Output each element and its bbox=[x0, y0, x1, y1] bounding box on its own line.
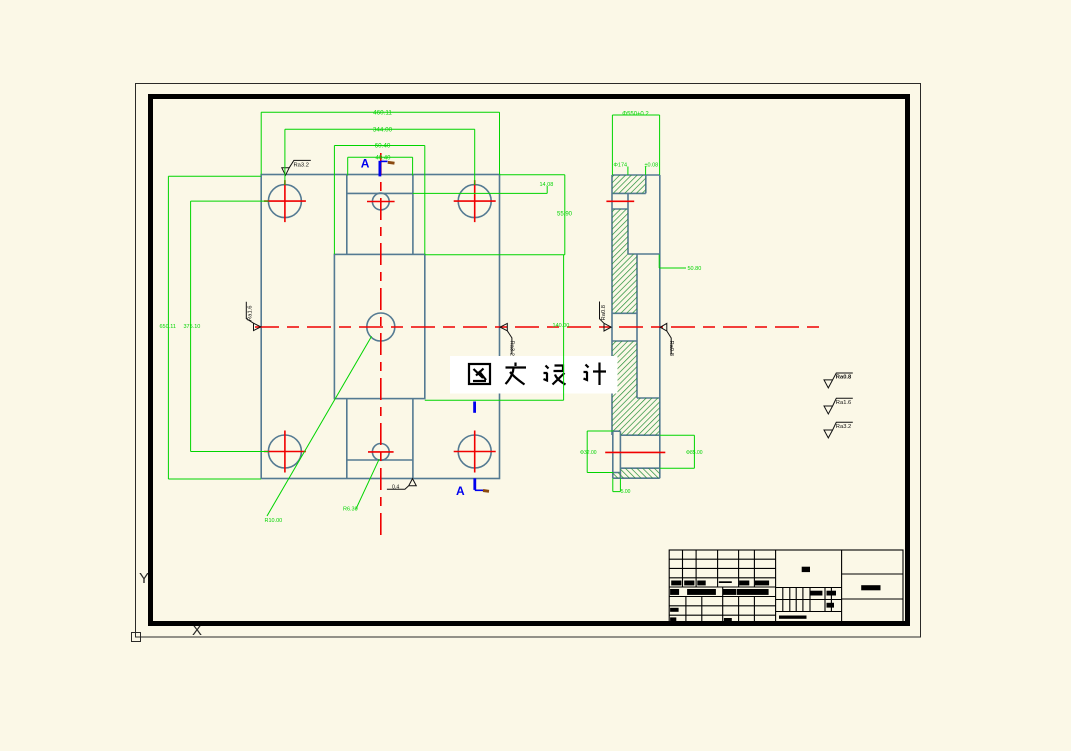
svg-text:Φ32.00: Φ32.00 bbox=[580, 450, 597, 456]
svg-text:375.10: 375.10 bbox=[184, 324, 201, 330]
svg-text:Ra1.6: Ra1.6 bbox=[248, 306, 254, 321]
svg-text:Ra1.6: Ra1.6 bbox=[836, 400, 851, 406]
svg-text:40.40: 40.40 bbox=[375, 156, 391, 162]
svg-text:Ra3.2: Ra3.2 bbox=[509, 341, 515, 356]
svg-text:R6.30: R6.30 bbox=[343, 507, 358, 513]
svg-text:650.11: 650.11 bbox=[160, 324, 176, 330]
svg-text:344.00: 344.00 bbox=[373, 127, 393, 134]
svg-text:5.00: 5.00 bbox=[621, 489, 631, 495]
svg-text:Φ550±0.2: Φ550±0.2 bbox=[622, 112, 649, 118]
svg-text:Ra0.8: Ra0.8 bbox=[668, 341, 674, 356]
svg-text:±0.08: ±0.08 bbox=[645, 163, 659, 169]
svg-text:Φ174: Φ174 bbox=[614, 163, 628, 169]
svg-text:60.40: 60.40 bbox=[375, 143, 391, 150]
svg-text:0.4: 0.4 bbox=[392, 484, 399, 490]
svg-text:A: A bbox=[361, 157, 370, 171]
svg-text:Ra3.2: Ra3.2 bbox=[836, 424, 851, 430]
svg-text:14.08: 14.08 bbox=[540, 182, 554, 188]
svg-text:R10.00: R10.00 bbox=[265, 518, 283, 524]
svg-text:460.11: 460.11 bbox=[373, 110, 392, 117]
svg-text:Y: Y bbox=[139, 570, 149, 587]
svg-text:Ra0.8: Ra0.8 bbox=[601, 305, 607, 320]
svg-text:Ra0.8: Ra0.8 bbox=[836, 375, 852, 381]
svg-text:140.00: 140.00 bbox=[553, 323, 570, 329]
svg-text:A: A bbox=[456, 484, 465, 498]
svg-text:55.90: 55.90 bbox=[557, 212, 573, 218]
svg-text:Ra3.2: Ra3.2 bbox=[294, 162, 309, 168]
svg-text:50.80: 50.80 bbox=[688, 266, 702, 272]
svg-text:Φ85.00: Φ85.00 bbox=[686, 450, 703, 456]
